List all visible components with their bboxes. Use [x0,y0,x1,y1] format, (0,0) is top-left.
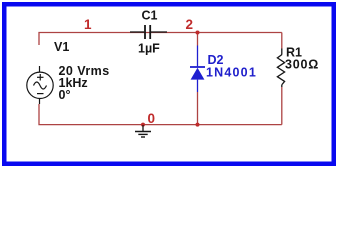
source V1 [27,66,53,104]
svg-text:2: 2 [186,17,194,32]
capacitor C1 [130,25,167,39]
wire right net [281,33,283,49]
wire bottom net 0 [39,104,282,125]
svg-text:1: 1 [84,17,92,32]
junction diode-bottom [196,123,200,127]
svg-text:V1: V1 [54,40,69,54]
junction ground [141,123,145,127]
svg-text:1N4001: 1N4001 [206,66,257,80]
svg-text:1µF: 1µF [138,42,160,56]
svg-text:0°: 0° [59,88,71,102]
svg-text:0: 0 [148,111,156,126]
svg-text:300Ω: 300Ω [285,58,319,72]
resistor R1 [277,49,284,88]
wire top net 1/2 [39,33,282,46]
svg-text:C1: C1 [142,9,158,23]
diode D2 [190,46,205,93]
wire diode branch [197,33,199,46]
junction node 2 [196,31,200,35]
ground [135,125,151,137]
